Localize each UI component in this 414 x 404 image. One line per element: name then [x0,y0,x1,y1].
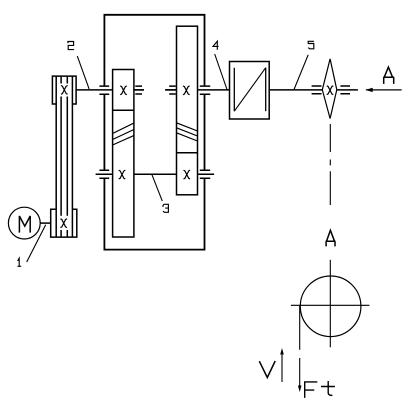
leader 5 [294,55,308,90]
crosshair horizontal [291,304,370,306]
blade fixing X [327,86,334,95]
motor shaft [40,222,51,224]
force line Ft [299,305,301,390]
belt line outer-left [55,76,57,237]
label 4 [213,41,219,50]
coupling inner left plate [233,68,235,112]
label 3 [163,204,168,212]
gear block right lower fixing X [184,170,191,179]
gear block right helical hatch [177,123,198,141]
leader 1 [27,225,46,262]
section label A bottom [326,230,336,246]
leader 2 [77,56,89,89]
velocity arrowhead up [280,348,284,355]
bearing left wall lower [99,170,109,178]
coupling inner right plate [265,68,267,112]
bearing left wall upper [99,86,109,94]
crosshair vertical [329,260,331,348]
label 1 [18,258,22,266]
belt line inner-right [66,76,68,237]
slide marks right of left block [134,86,144,94]
label 5 [308,41,314,49]
bearing right wall upper [200,86,210,94]
motor label M [19,216,30,233]
gear block left helical hatch [113,123,134,145]
shaft stub right of blade [337,89,358,91]
belt line outer-right [71,76,73,237]
gear block right (output shaft) [177,26,198,195]
pulley top fixing X [61,86,68,95]
blade shaft (shaft 5) [269,89,322,91]
output shaft segment inside gearbox [165,89,229,91]
view label A top [383,67,394,84]
label 2 [68,42,74,50]
counter shaft (shaft 3) [96,173,215,175]
leader 3 [152,175,162,202]
label F of Ft [305,382,318,398]
bearing right wall lower [200,170,210,178]
view arrow A head [365,88,372,92]
motor M [8,207,40,239]
force arrowhead down [298,386,302,393]
gear block right upper fixing X [183,86,190,95]
coupling 4 [230,62,270,120]
belt line inner-left [60,76,62,237]
slide marks left of blade [312,86,322,94]
label t of Ft [321,381,335,395]
label V [259,361,275,378]
slide marks left of right block [165,86,176,94]
gearbox housing [104,15,204,250]
pulley bottom fixing X [60,219,67,228]
input shaft (shaft 2) [76,89,144,91]
velocity arrow V [281,353,283,382]
blade front view circle [300,276,361,337]
coupling diagonal [234,68,265,112]
gear block left divider [113,109,134,111]
gear block left lower fixing X [119,170,126,179]
leader 4 [215,54,227,90]
saw blade (edge view) [322,59,337,119]
pulley top (driven) [52,76,76,104]
gear block right divider [177,152,198,154]
gear block left upper fixing X [120,86,127,95]
slide marks right of blade [340,86,350,94]
gear block left (input shaft) [113,70,134,238]
view arrow A line [366,89,402,91]
pulley bottom (driving) [51,209,77,237]
blade centerline (dash-dot) [329,124,331,205]
